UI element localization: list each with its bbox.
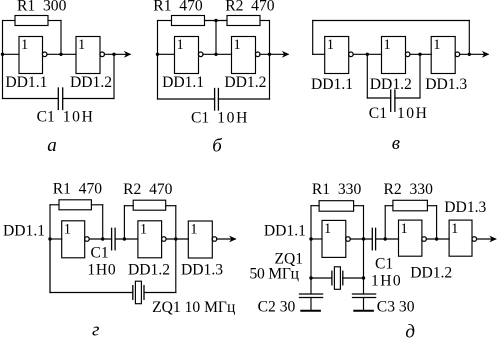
wire R1 right vertical d: [363, 206, 365, 278]
wire left vertical g: [49, 205, 51, 293]
svg-text:д: д: [405, 322, 415, 338]
wire DD1.1 out to C1 g: [89, 238, 112, 240]
wire R1 left d: [311, 205, 319, 207]
wire C1 to DD1.2 d: [376, 238, 399, 240]
wire C3 bottom d: [363, 298, 365, 311]
node R1/R2 top b: [214, 19, 217, 22]
svg-text:ZQ1 10 МГц: ZQ1 10 МГц: [152, 299, 235, 316]
resistor R1 g: [59, 200, 91, 210]
svg-text:R1 470: R1 470: [153, 0, 203, 14]
wire input DD1.1: [3, 53, 20, 55]
op-amp gate DD1.2 d: [399, 220, 422, 256]
svg-text:DD1.2: DD1.2: [70, 74, 112, 91]
svg-text:1: 1: [433, 37, 440, 53]
wire feedback right vertical: [113, 54, 115, 98]
wire R2 left g: [124, 205, 133, 207]
node cap tap left v: [366, 53, 369, 56]
svg-text:DD1.2: DD1.2: [370, 76, 412, 93]
wire R1-R2 top b: [205, 20, 228, 22]
capacitor C1 g: [111, 228, 113, 250]
svg-text:1: 1: [451, 221, 458, 237]
op-amp gate DD1.1 d: [322, 220, 346, 257]
op-amp gate DD1.3 g: [188, 221, 212, 258]
svg-text:в: в: [392, 133, 400, 154]
node input DD1.1 d: [309, 237, 312, 240]
wire R2 right d: [427, 205, 436, 207]
svg-text:10Н: 10Н: [397, 105, 428, 122]
svg-text:DD1.3: DD1.3: [181, 261, 223, 278]
wire R2 right vertical b: [269, 21, 271, 100]
svg-text:1: 1: [190, 221, 197, 237]
wire R2 right vertical d: [436, 206, 438, 239]
svg-text:DD1.3: DD1.3: [444, 199, 486, 216]
wire DD1.3 output v: [460, 53, 488, 55]
wire crystal line right d: [343, 277, 364, 279]
pin inversion circle DD1.1 b: [198, 52, 203, 57]
node DD1.2 in g: [123, 237, 126, 240]
svg-text:C1: C1: [369, 105, 387, 122]
wire input DD1.1 g: [50, 238, 62, 240]
wire R1 right: [48, 20, 61, 22]
capacitor C2 d: [300, 293, 323, 295]
resistor R2 g: [133, 200, 166, 210]
wire R1 left: [3, 20, 16, 22]
svg-text:DD1.2: DD1.2: [410, 265, 452, 282]
wire R2 left vertical d: [384, 206, 386, 239]
capacitor C1 d: [371, 228, 373, 250]
capacitor C1: [57, 88, 59, 110]
wire R2 left d: [385, 205, 393, 207]
svg-text:б: б: [212, 135, 223, 156]
pin inversion circle DD1.3 d: [472, 237, 477, 242]
node input DD1.1: [1, 53, 4, 56]
svg-text:DD1.3: DD1.3: [425, 76, 467, 93]
wire DD1.1 to DD1.2 v: [353, 53, 381, 55]
wire C2 bottom d: [310, 298, 312, 311]
wire DD1.1 to DD1.2 b: [203, 53, 232, 55]
wire cap bottom right v: [395, 97, 420, 99]
wire R1 left b: [158, 20, 172, 22]
wire input DD1.1 b: [158, 53, 175, 55]
wire R1 right vertical g: [102, 205, 104, 239]
arrow output d: [489, 236, 496, 243]
pin inversion circle DD1.1 v: [349, 52, 354, 57]
svg-text:1: 1: [384, 37, 391, 53]
svg-text:1: 1: [140, 221, 147, 237]
node DD1.2 in d: [384, 237, 387, 240]
wire cap bottom left v: [367, 97, 390, 99]
svg-text:C2 30: C2 30: [258, 299, 296, 316]
op-amp U1 gate DD1.1: [19, 37, 43, 74]
svg-text:DD1.2: DD1.2: [128, 261, 170, 278]
pin inversion circle DD1.1 g: [85, 237, 90, 242]
svg-text:DD1.1: DD1.1: [264, 222, 306, 239]
wire DD1.2 output: [104, 53, 130, 55]
svg-text:C1: C1: [37, 108, 55, 125]
svg-text:1: 1: [78, 37, 85, 53]
pin inversion circle DD1.1: [42, 52, 47, 57]
op-amp gate DD1.2 g: [138, 221, 162, 258]
resistor R2 d: [393, 200, 428, 211]
wire R2 left vertical g: [123, 206, 125, 239]
svg-text:DD1.1: DD1.1: [311, 76, 353, 93]
node output b: [268, 53, 271, 56]
svg-text:г: г: [92, 320, 99, 338]
pin inversion circle DD1.1 d: [346, 237, 351, 242]
node R1/DD1.1 out: [59, 53, 62, 56]
svg-text:1Н0: 1Н0: [87, 261, 116, 278]
wire DD1.1 out to DD1.2 in: [47, 53, 76, 55]
wire R1 right vertical: [60, 21, 62, 55]
svg-text:DD1.1: DD1.1: [162, 74, 204, 91]
svg-text:1: 1: [401, 221, 408, 237]
op-amp U2 gate DD1.2: [76, 37, 100, 74]
svg-text:1Н0: 1Н0: [371, 272, 402, 289]
wire crystal line left d: [311, 277, 332, 279]
crystal ZQ1 d: [331, 271, 333, 285]
wire crystal left g: [50, 292, 133, 294]
op-amp gate DD1.2 v: [382, 37, 406, 74]
op-amp gate DD1.1 b: [175, 37, 199, 74]
svg-text:R2 330: R2 330: [384, 181, 434, 198]
capacitor C1 v: [390, 90, 392, 111]
op-amp gate DD1.3 v: [431, 37, 455, 74]
svg-text:R1 470: R1 470: [53, 181, 103, 198]
svg-text:1: 1: [64, 221, 71, 237]
wire crystal right g: [144, 292, 176, 294]
wire R2 right vertical g: [175, 206, 177, 239]
resistor R1 d: [319, 201, 354, 212]
svg-text:C1: C1: [191, 110, 209, 127]
svg-text:а: а: [47, 135, 57, 156]
node DD1.1 out d: [362, 237, 365, 240]
pin inversion circle DD1.2 g: [162, 237, 167, 242]
svg-text:R1 300: R1 300: [17, 0, 67, 14]
wire left vertical v: [312, 21, 314, 55]
wire R1 right g: [91, 204, 102, 206]
svg-text:R2 470: R2 470: [123, 181, 173, 198]
op-amp gate DD1.3 d: [449, 220, 472, 256]
crystal ZQ1 g: [132, 286, 134, 300]
wire C3 top d: [363, 278, 365, 294]
wire C1 to DD1.2 g: [115, 238, 138, 240]
svg-text:1: 1: [324, 221, 331, 237]
arrow output b: [282, 51, 289, 58]
wire DD1.2 out to DD1.3 d: [426, 238, 449, 240]
op-amp gate DD1.2 b: [232, 37, 256, 74]
wire input DD1.1 v: [313, 53, 325, 55]
wire DD1.3 output d: [477, 238, 496, 240]
svg-text:C1: C1: [375, 255, 393, 272]
pin inversion circle DD1.2: [100, 52, 105, 57]
wire DD1.2 out to DD1.3 g: [166, 238, 188, 240]
wire R1 right d: [354, 205, 364, 207]
node DD1.1 out g: [101, 237, 104, 240]
svg-text:R2 470: R2 470: [225, 0, 275, 14]
svg-text:10Н: 10Н: [217, 109, 249, 126]
ground C3 d: [354, 310, 373, 312]
svg-text:10Н: 10Н: [63, 109, 95, 126]
wire R1 left g: [50, 204, 59, 206]
node crystal left d: [309, 276, 312, 279]
wire DD1.2 output b: [260, 53, 288, 55]
wire cap bottom right b: [218, 98, 269, 100]
svg-text:1: 1: [327, 37, 334, 53]
wire crystal right vertical g: [175, 239, 177, 293]
wire middle vertical b: [215, 21, 217, 55]
capacitor C1 b: [214, 89, 216, 111]
op-amp gate DD1.1 v: [325, 37, 349, 74]
wire R2 right g: [166, 205, 176, 207]
node DD1.2 out d: [435, 237, 438, 240]
wire cap bottom left b: [158, 98, 215, 100]
svg-text:DD1.1: DD1.1: [5, 74, 47, 91]
wire DD1.1 out to C1 d: [350, 238, 372, 240]
node mid b: [214, 53, 217, 56]
svg-text:DD1.1: DD1.1: [3, 223, 45, 240]
wire feedback top v: [313, 20, 470, 22]
node output v: [468, 53, 471, 56]
wire cap bottom left: [3, 98, 59, 100]
capacitor C3 d: [353, 293, 376, 295]
svg-text:50 МГц: 50 МГц: [250, 266, 299, 283]
wire DD1.3 output g: [217, 238, 236, 240]
svg-text:1: 1: [234, 37, 241, 53]
ground C2 d: [301, 310, 320, 312]
wire crystal left vertical g: [49, 239, 51, 293]
pin inversion circle DD1.2 v: [405, 52, 410, 57]
node input DD1.1 b: [156, 53, 159, 56]
node input DD1.1 g: [48, 237, 51, 240]
pin inversion circle DD1.3 g: [212, 237, 217, 242]
op-amp gate DD1.1 g: [62, 221, 85, 258]
svg-text:DD1.2: DD1.2: [224, 74, 266, 91]
wire right vertical v: [468, 21, 470, 55]
resistor R1 b: [172, 16, 205, 26]
svg-text:C3 30: C3 30: [377, 299, 415, 316]
wire DD1.2 to DD1.3 v: [410, 53, 431, 55]
arrow output g: [229, 236, 236, 243]
wire cap bottom right: [63, 98, 114, 100]
wire R2 right b: [260, 20, 270, 22]
wire cap tap right v: [419, 54, 421, 98]
wire C2 top d: [310, 278, 312, 294]
node output a: [112, 53, 115, 56]
wire: left vertical input bus: [2, 21, 4, 99]
svg-text:C1: C1: [91, 245, 109, 262]
resistor R1: [15, 16, 48, 26]
resistor R2 b: [227, 16, 260, 26]
svg-text:1: 1: [21, 37, 28, 53]
node cap tap right v: [418, 53, 421, 56]
svg-text:1: 1: [177, 37, 184, 53]
pin inversion circle DD1.2 b: [255, 52, 260, 57]
wire input DD1.1 d: [311, 238, 322, 240]
wire left vertical d: [310, 206, 312, 278]
svg-text:R1 330: R1 330: [312, 181, 362, 198]
arrow output a: [124, 51, 131, 58]
pin inversion circle DD1.2 d: [422, 237, 427, 242]
pin inversion circle DD1.3 v: [455, 52, 460, 57]
arrow output v: [482, 51, 489, 58]
wire cap tap left v: [366, 54, 368, 98]
node DD1.2 out g: [174, 237, 177, 240]
wire left vertical input bus b: [157, 21, 159, 100]
node crystal right d: [362, 276, 365, 279]
